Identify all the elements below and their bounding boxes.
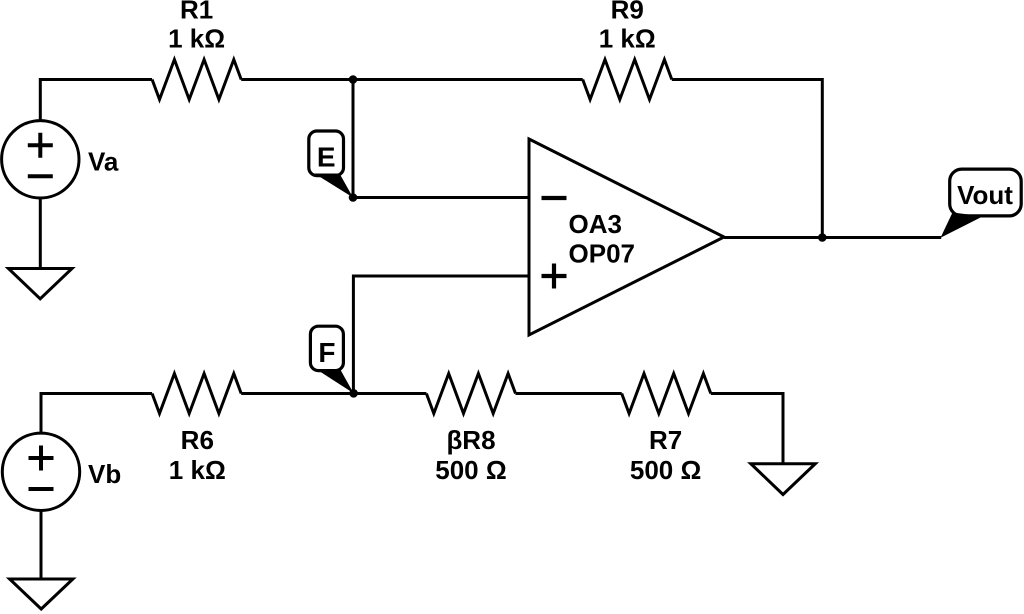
wire	[353, 276, 529, 393]
resistor R8	[426, 374, 515, 414]
resistor R6	[152, 374, 241, 414]
svg-text:F: F	[318, 337, 335, 368]
svg-text:1 kΩ: 1 kΩ	[599, 23, 656, 53]
resistor R9	[583, 60, 672, 100]
svg-text:OP07: OP07	[569, 239, 636, 269]
wire	[241, 78, 353, 81]
label F	[310, 326, 353, 393]
op-amp U1 OA3	[529, 139, 724, 335]
wire	[40, 511, 43, 580]
ground	[8, 269, 72, 299]
wire	[354, 392, 427, 395]
ground	[10, 579, 73, 609]
wire	[672, 80, 823, 238]
wire	[353, 196, 529, 199]
svg-text:1 kΩ: 1 kΩ	[169, 455, 226, 485]
ground	[751, 464, 816, 495]
svg-text:500 Ω: 500 Ω	[630, 455, 701, 485]
svg-text:R6: R6	[181, 425, 214, 455]
svg-text:1 kΩ: 1 kΩ	[168, 23, 225, 53]
voltage source Va	[2, 121, 79, 198]
label E	[309, 131, 353, 198]
label Vout	[941, 169, 1022, 238]
resistor R7	[622, 374, 711, 414]
svg-text:Vout: Vout	[957, 180, 1013, 210]
wire	[353, 78, 583, 81]
node F	[349, 389, 358, 398]
svg-text:βR8: βR8	[446, 425, 495, 455]
wire	[724, 236, 941, 239]
svg-text:500 Ω: 500 Ω	[435, 455, 506, 485]
svg-text:R9: R9	[611, 0, 644, 24]
node E	[349, 193, 358, 202]
svg-text:R7: R7	[649, 425, 682, 455]
wire	[711, 394, 783, 464]
svg-text:Va: Va	[88, 147, 119, 177]
wire	[241, 392, 353, 395]
voltage source Vb	[2, 433, 79, 510]
svg-text:Vb: Vb	[88, 459, 121, 489]
wire	[41, 394, 152, 434]
wire	[40, 80, 152, 121]
svg-text:OA3: OA3	[569, 209, 622, 239]
junction	[818, 233, 827, 242]
wire	[39, 198, 42, 269]
svg-text:E: E	[317, 141, 336, 172]
wire	[352, 80, 355, 198]
resistor R1	[152, 60, 241, 100]
junction	[349, 75, 358, 84]
wire	[516, 392, 622, 395]
svg-text:R1: R1	[180, 0, 213, 24]
